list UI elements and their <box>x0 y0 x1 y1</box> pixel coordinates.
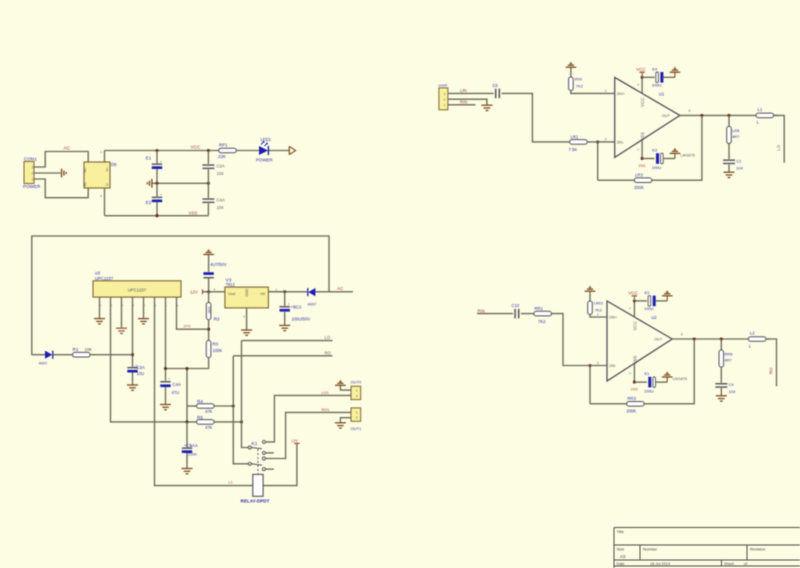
svg-text:47K: 47K <box>205 425 213 430</box>
svg-text:LIN: LIN <box>460 88 467 93</box>
svg-text:100K: 100K <box>213 348 223 353</box>
svg-text:2: 2 <box>597 361 599 365</box>
svg-text:104: 104 <box>217 205 225 210</box>
svg-text:+: + <box>160 193 162 197</box>
svg-text:con0: con0 <box>438 82 447 87</box>
svg-text:OUT0: OUT0 <box>351 380 362 385</box>
svg-text:Vout: Vout <box>228 292 235 296</box>
svg-text:Sheet: Sheet <box>724 562 735 566</box>
svg-text:4U7/50V: 4U7/50V <box>210 262 227 267</box>
svg-text:2IN+: 2IN+ <box>609 316 618 320</box>
svg-text:VSS: VSS <box>638 164 646 168</box>
svg-text:100U/50V: 100U/50V <box>292 316 311 321</box>
svg-text:2IN-: 2IN- <box>617 141 625 145</box>
svg-text:12V: 12V <box>291 439 298 443</box>
svg-text:RR1: RR1 <box>535 306 544 311</box>
svg-text:LO: LO <box>325 335 331 340</box>
svg-text:AC: AC <box>64 145 71 151</box>
svg-text:4: 4 <box>681 333 683 337</box>
svg-text:Vin: Vin <box>260 292 265 296</box>
svg-text:VSS: VSS <box>189 210 198 215</box>
svg-text:E2: E2 <box>146 200 152 205</box>
svg-text:VCC: VCC <box>640 98 645 107</box>
svg-text:RIN: RIN <box>460 100 467 105</box>
svg-text:L1: L1 <box>758 107 763 112</box>
svg-text:Size: Size <box>617 547 626 552</box>
svg-text:200K: 200K <box>634 185 644 190</box>
svg-text:10K: 10K <box>85 347 93 352</box>
svg-text:1: 1 <box>597 313 599 317</box>
svg-text:VCC: VCC <box>628 291 638 296</box>
svg-text:CON1: CON1 <box>24 156 37 161</box>
svg-text:+BC1: +BC1 <box>291 305 303 310</box>
svg-text:7K2: 7K2 <box>538 319 546 324</box>
svg-text:LR01: LR01 <box>594 301 604 306</box>
svg-text:R4: R4 <box>197 399 203 404</box>
svg-text:4007: 4007 <box>308 301 318 306</box>
svg-text:LED1: LED1 <box>261 137 272 142</box>
svg-text:LR1: LR1 <box>571 134 579 139</box>
svg-text:D6: D6 <box>111 162 117 167</box>
svg-text:2: 2 <box>32 172 34 176</box>
svg-text:VCC: VCC <box>191 145 202 151</box>
svg-text:LM1875: LM1875 <box>680 153 695 158</box>
svg-text:K1: K1 <box>252 441 258 447</box>
svg-text:4007: 4007 <box>39 360 49 365</box>
svg-text:47K: 47K <box>205 409 213 414</box>
svg-text:VCC: VCC <box>636 67 646 72</box>
svg-text:4R7: 4R7 <box>732 134 740 139</box>
svg-text:E2: E2 <box>645 290 651 295</box>
svg-text:104: 104 <box>729 389 736 394</box>
svg-text:L1: L1 <box>229 480 233 484</box>
svg-text:104: 104 <box>217 171 225 176</box>
svg-text:3: 3 <box>32 166 34 170</box>
svg-text:RIN: RIN <box>478 308 485 313</box>
svg-text:+C5AA: +C5AA <box>184 443 198 448</box>
svg-text:OUT: OUT <box>654 338 663 342</box>
svg-text:C4A: C4A <box>173 382 181 387</box>
svg-text:RR6: RR6 <box>725 352 734 357</box>
svg-text:U2: U2 <box>651 315 657 320</box>
svg-text:C0: C0 <box>493 83 499 88</box>
svg-text:OUT: OUT <box>662 114 671 118</box>
svg-text:Revision: Revision <box>750 547 765 552</box>
svg-text:C2A: C2A <box>217 163 225 168</box>
svg-text:VSS: VSS <box>640 132 645 141</box>
svg-text:E1: E1 <box>146 156 152 161</box>
svg-text:100U: 100U <box>652 82 662 87</box>
svg-text:104: 104 <box>736 166 743 171</box>
svg-text:+C3A: +C3A <box>134 365 145 370</box>
svg-text:RR3: RR3 <box>627 396 636 401</box>
svg-text:7K2: 7K2 <box>595 308 603 313</box>
svg-text:LO1: LO1 <box>322 391 329 395</box>
svg-text:2IN+: 2IN+ <box>617 92 626 96</box>
svg-text:+: + <box>168 377 170 381</box>
svg-text:POWER: POWER <box>23 184 41 189</box>
svg-text:1: 1 <box>32 178 34 182</box>
svg-text:UPC1237: UPC1237 <box>95 276 114 281</box>
svg-text:16-Jul-2014: 16-Jul-2014 <box>650 562 670 566</box>
svg-text:UPC1237: UPC1237 <box>128 288 147 293</box>
svg-text:1: 1 <box>605 89 607 93</box>
svg-text:7812: 7812 <box>226 282 236 287</box>
svg-text:+: + <box>160 160 162 164</box>
svg-text:2IN-: 2IN- <box>609 364 617 368</box>
svg-text:GND: GND <box>245 288 249 296</box>
svg-text:R5: R5 <box>197 415 203 420</box>
svg-text:Title: Title <box>617 529 625 534</box>
svg-text:OUT1: OUT1 <box>351 426 362 431</box>
svg-text:47U: 47U <box>172 390 180 395</box>
svg-text:3K9: 3K9 <box>207 307 211 314</box>
svg-text:VCC: VCC <box>632 321 637 330</box>
svg-text:220n: 220n <box>188 451 197 456</box>
svg-text:RELAY-DPDT: RELAY-DPDT <box>241 499 270 504</box>
svg-text:2: 2 <box>605 137 607 141</box>
svg-text:C1: C1 <box>736 159 742 164</box>
svg-text:27V: 27V <box>184 324 191 329</box>
svg-text:7.5K: 7.5K <box>569 147 578 152</box>
svg-text:200K: 200K <box>626 408 636 413</box>
svg-text:22K: 22K <box>218 154 226 159</box>
svg-text:C4A: C4A <box>217 197 225 202</box>
svg-text:V-: V- <box>106 183 110 186</box>
svg-text:R3: R3 <box>213 342 219 347</box>
svg-text:100U: 100U <box>644 306 654 311</box>
svg-text:12V: 12V <box>190 290 198 295</box>
svg-text:100U: 100U <box>652 165 662 170</box>
svg-text:10U: 10U <box>137 371 145 376</box>
svg-text:C10: C10 <box>512 303 520 308</box>
svg-text:E1: E1 <box>645 371 651 376</box>
svg-text:VSS: VSS <box>631 388 639 392</box>
svg-text:AC: AC <box>83 181 87 186</box>
svg-text:A3: A3 <box>620 554 626 559</box>
svg-text:7K2: 7K2 <box>576 84 584 89</box>
svg-text:E3: E3 <box>652 148 658 153</box>
svg-text:L2: L2 <box>750 331 755 336</box>
svg-text:E4: E4 <box>652 66 658 71</box>
svg-text:4R7: 4R7 <box>725 358 733 363</box>
svg-text:V+: V+ <box>106 167 110 171</box>
svg-text:Number: Number <box>643 547 658 552</box>
svg-text:Date: Date <box>617 562 625 566</box>
svg-text:R00: R00 <box>575 77 583 82</box>
svg-text:RP1: RP1 <box>219 143 228 148</box>
svg-text:AC: AC <box>83 167 87 172</box>
svg-text:LR6: LR6 <box>732 128 740 133</box>
svg-text:RO: RO <box>768 367 773 374</box>
svg-text:RO: RO <box>325 350 332 355</box>
svg-text:4: 4 <box>688 109 690 113</box>
svg-text:LO: LO <box>776 144 781 150</box>
svg-text:R2: R2 <box>214 317 220 323</box>
svg-text:u3: u3 <box>95 271 101 276</box>
svg-text:U1: U1 <box>659 91 665 96</box>
svg-text:RO1: RO1 <box>322 408 330 412</box>
svg-text:VSS: VSS <box>632 356 637 365</box>
svg-text:R1: R1 <box>73 347 79 352</box>
svg-text:POWER: POWER <box>256 157 273 162</box>
svg-text:+: + <box>288 302 290 306</box>
svg-text:LM1875: LM1875 <box>673 376 688 381</box>
svg-text:AC: AC <box>337 286 344 291</box>
svg-text:LR3: LR3 <box>635 172 643 177</box>
svg-text:100U: 100U <box>644 389 654 394</box>
svg-text:C4: C4 <box>729 382 735 387</box>
